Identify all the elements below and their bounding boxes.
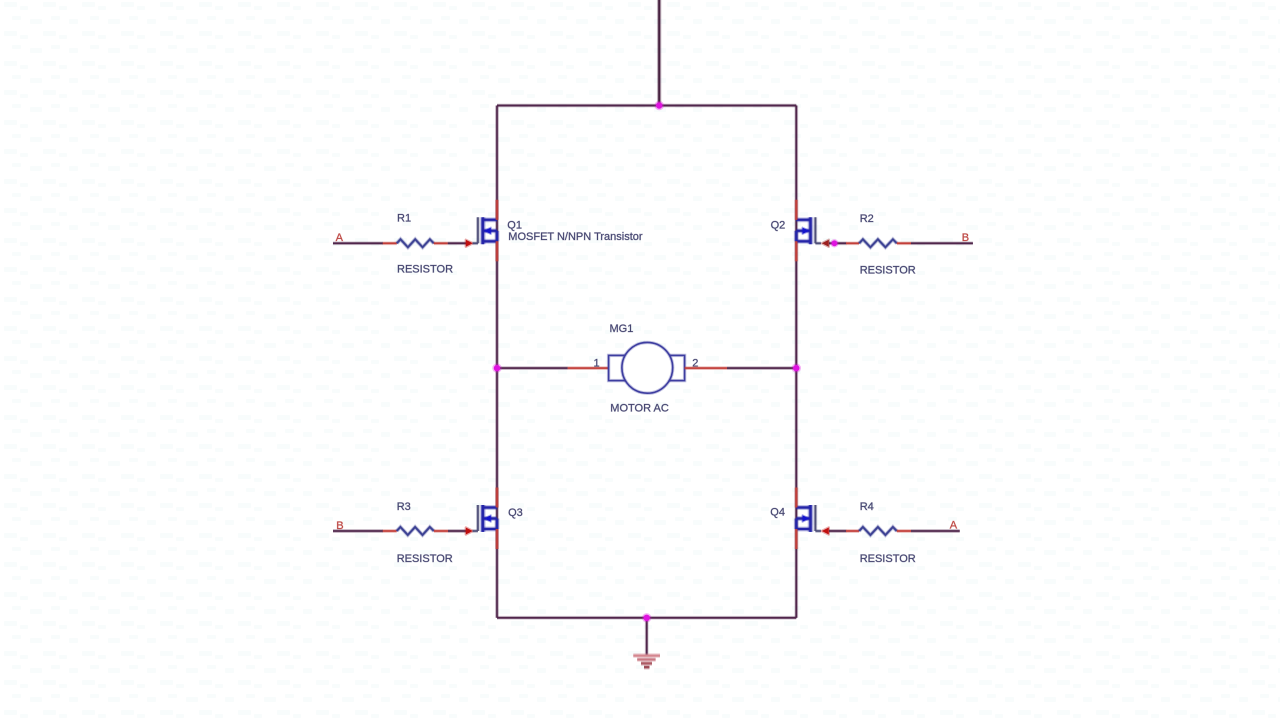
svg-text:R2: R2 (860, 213, 874, 225)
transistor Q4 (mirrored) (796, 488, 821, 550)
svg-text:Q3: Q3 (508, 507, 523, 519)
wire motor pin 2 to right rail (727, 366, 796, 370)
svg-text:RESISTOR: RESISTOR (860, 553, 916, 565)
wire right rail (794, 106, 798, 618)
wire left rail (495, 106, 499, 618)
motor MG1 (609, 342, 685, 393)
wire R2 to net B (row 2) (911, 241, 973, 245)
svg-text:RESISTOR: RESISTOR (860, 265, 916, 277)
transistor Q1 (473, 200, 498, 261)
transistor Q3 (473, 488, 498, 550)
wire R1 to Q1 gate (448, 241, 466, 245)
wire left rail to motor pin 1 (497, 366, 568, 370)
junction right rail / motor row (792, 363, 801, 372)
svg-text:R3: R3 (397, 501, 411, 513)
resistor R2 (846, 239, 911, 247)
junction ground stem / bottom rail (642, 613, 651, 622)
junction left rail / motor row (492, 363, 501, 372)
resistor R1 (383, 239, 448, 247)
svg-text:MOTOR AC: MOTOR AC (610, 402, 669, 414)
svg-text:RESISTOR: RESISTOR (397, 553, 453, 565)
arrow into Q1 gate (466, 240, 473, 247)
svg-text:B: B (962, 232, 969, 244)
ground symbol (633, 656, 660, 668)
wire bottom rail (497, 616, 796, 620)
transistor Q2 (mirrored) (796, 200, 821, 261)
svg-text:R4: R4 (860, 501, 874, 513)
svg-text:Q4: Q4 (770, 507, 785, 519)
resistor R4 (846, 527, 911, 535)
junction on Q2 gate wire (830, 239, 838, 247)
wire ground stem (645, 618, 649, 656)
motor MG1 pin 1 lead (568, 366, 609, 370)
junction V+ feed / top rail (655, 101, 664, 110)
wire R3 to Q3 gate (448, 529, 466, 533)
svg-text:RESISTOR: RESISTOR (397, 264, 453, 276)
svg-text:MG1: MG1 (610, 323, 634, 335)
svg-text:Q2: Q2 (771, 220, 786, 232)
wire Q4 gate to R4 (829, 529, 846, 533)
svg-text:R1: R1 (397, 212, 411, 224)
svg-text:MOSFET N/NPN Transistor: MOSFET N/NPN Transistor (508, 231, 643, 243)
motor MG1 pin 2 lead (685, 366, 727, 370)
arrow into Q3 gate (466, 528, 473, 535)
wire Q2 gate to R2 (829, 241, 846, 245)
wire V+ power feed (657, 0, 662, 106)
svg-text:1: 1 (594, 358, 600, 370)
wire net A to R1 (row 1) (333, 241, 383, 245)
wire R4 to net A (row 4) (911, 529, 960, 533)
svg-text:A: A (950, 520, 958, 532)
wire top rail (497, 104, 796, 108)
resistor R3 (383, 527, 448, 535)
wire net B to R3 (row 3) (333, 529, 383, 533)
arrow into Q2 gate (822, 240, 829, 247)
arrow into Q4 gate (822, 528, 829, 535)
